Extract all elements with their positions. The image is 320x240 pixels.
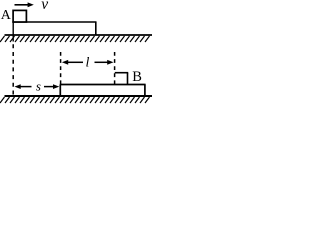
svg-text:v: v <box>41 0 48 13</box>
svg-text:A: A <box>1 8 12 23</box>
svg-text:s: s <box>36 78 41 93</box>
svg-text:l: l <box>86 56 90 71</box>
svg-text:B: B <box>132 69 142 85</box>
